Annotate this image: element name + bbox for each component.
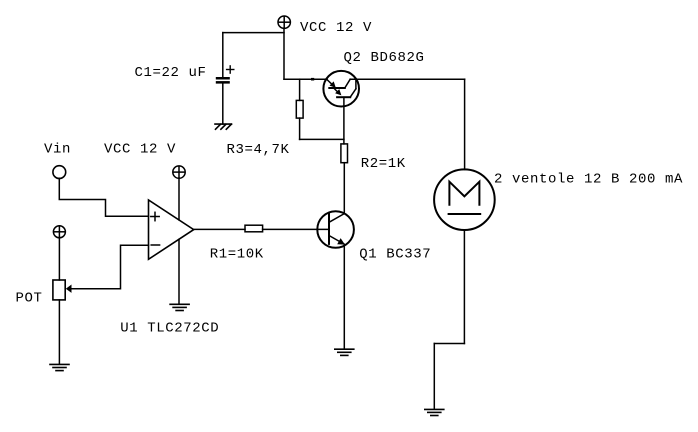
svg-text:Q2 BD682G: Q2 BD682G xyxy=(344,50,425,66)
wire R3 top lead xyxy=(299,79,301,100)
wire C1 top horizontal xyxy=(223,32,284,34)
wire R3 to base node horizontal xyxy=(300,138,344,140)
wire Q2 collector to motor xyxy=(350,78,464,80)
junction dot on rail xyxy=(311,78,314,81)
wire motor bottom lead xyxy=(463,230,465,344)
svg-text:U1 TLC272CD: U1 TLC272CD xyxy=(120,321,219,337)
op-amp U1 xyxy=(149,200,194,259)
wire C1 top lead xyxy=(222,33,224,77)
wire step left xyxy=(434,343,464,345)
resistor R1 xyxy=(245,225,263,232)
wire op-amp output to R1 xyxy=(194,228,245,230)
ground (under op-amp) xyxy=(170,304,189,310)
svg-text:VCC 12 V: VCC 12 V xyxy=(300,20,372,36)
wire rail VCC to Q2 xyxy=(284,78,327,80)
resistor R3 xyxy=(296,100,303,118)
wire C1 bottom lead xyxy=(222,84,224,125)
power flag pot top xyxy=(53,226,65,238)
power flag VCC top xyxy=(278,16,290,28)
terminal Vin xyxy=(53,166,66,179)
wire VCC flag down to rail xyxy=(283,28,285,79)
wire pot bottom lead xyxy=(58,300,60,364)
ground (under motor) xyxy=(425,409,444,415)
resistor R2 xyxy=(341,144,348,163)
svg-text:R3=4,7K: R3=4,7K xyxy=(227,142,290,158)
svg-text:Q1 BC337: Q1 BC337 xyxy=(359,247,431,263)
svg-text:Vin: Vin xyxy=(44,142,71,158)
wire motor top lead xyxy=(464,79,466,169)
svg-text:C1=22 uF: C1=22 uF xyxy=(135,65,207,81)
ground (under pot) xyxy=(50,364,69,370)
ground (hatched, under C1) xyxy=(215,124,232,129)
capacitor C1 xyxy=(216,66,234,84)
wire Q2 base lead down xyxy=(343,97,345,144)
wire Vin to op-amp plus input xyxy=(59,178,148,216)
svg-text:2 ventole 12 B 200 mA: 2 ventole 12 B 200 mA xyxy=(494,172,683,188)
svg-text:R2=1K: R2=1K xyxy=(361,156,406,172)
wire down to ground xyxy=(433,344,435,409)
wire Q1 emitter to ground xyxy=(343,244,345,348)
transistor Q1 xyxy=(317,211,354,248)
wire pot top lead xyxy=(58,238,60,280)
wire inverting input to pot wiper xyxy=(72,245,149,289)
motor M1 (2 ventole) xyxy=(434,169,495,230)
ground (under Q1) xyxy=(335,349,354,355)
wire R2 to Q1 collector xyxy=(343,163,345,214)
wire R3 bottom lead xyxy=(299,118,301,139)
potentiometer POT xyxy=(53,280,72,300)
svg-text:R1=10K: R1=10K xyxy=(210,247,264,263)
wire op-amp V+ lead xyxy=(178,178,180,220)
power flag VCC op-amp xyxy=(173,166,185,178)
wire op-amp V- lead xyxy=(178,239,180,303)
svg-text:POT: POT xyxy=(16,291,43,307)
transistor Q2 xyxy=(323,71,359,107)
wire R1 to Q1 base xyxy=(263,228,329,230)
svg-text:VCC 12 V: VCC 12 V xyxy=(104,142,176,158)
